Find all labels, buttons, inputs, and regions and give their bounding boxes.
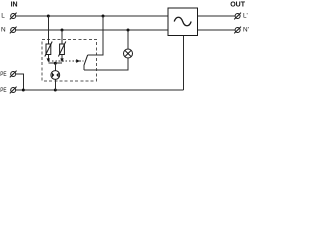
terminal L <box>10 13 17 20</box>
svg-text:L: L <box>1 13 5 20</box>
wire L' (output side) <box>198 15 236 17</box>
terminal L' <box>234 13 241 20</box>
thermal disconnect arrow 2 <box>60 58 63 62</box>
switch blade (signalling contact) <box>84 55 88 65</box>
node arrester-PE junction <box>54 89 57 92</box>
filter sine symbol <box>174 17 191 26</box>
terminal PE upper <box>10 71 17 78</box>
filter box U1 <box>168 8 198 36</box>
wire spark gap bottom lead <box>54 79 56 90</box>
wire lamp return <box>84 58 128 70</box>
varistor RV2 <box>58 42 65 57</box>
terminal PE lower <box>10 87 17 94</box>
wire L (input side) <box>16 15 168 17</box>
mechanical link arrowhead <box>76 59 80 63</box>
wire varistor 2 top lead <box>61 30 63 44</box>
svg-text:PE: PE <box>0 87 6 94</box>
wire lamp top lead <box>127 30 129 49</box>
node L / switch junction <box>102 15 105 18</box>
wire switch feed from L <box>88 16 103 55</box>
wire PE upper jumper <box>16 74 23 90</box>
node common bar junction <box>54 62 57 65</box>
node L / varistor 1 junction <box>47 15 50 18</box>
svg-text:PE: PE <box>0 71 6 78</box>
wire N (input side) <box>16 29 168 31</box>
wire spark gap top lead <box>54 63 56 70</box>
svg-text:OUT: OUT <box>230 1 246 8</box>
terminal N <box>10 27 17 34</box>
spark gap F1 (gas discharge tube) <box>51 71 60 80</box>
wire PE rail <box>16 89 184 91</box>
svg-text:N: N <box>1 27 6 34</box>
wire switch bottom lead <box>83 65 85 70</box>
node PE jumper junction <box>22 89 25 92</box>
svg-text:L': L' <box>243 13 248 20</box>
protective module dashed box <box>42 40 97 82</box>
svg-text:N': N' <box>243 27 249 34</box>
wire N' (output side) <box>198 29 236 31</box>
node N / lamp junction <box>127 29 130 32</box>
svg-text:IN: IN <box>11 1 18 8</box>
wire filter ground drop <box>183 36 185 91</box>
lamp H1 (indicator) <box>124 49 133 58</box>
wire common bar <box>48 62 62 64</box>
wire varistor 1 bottom lead <box>47 55 49 59</box>
wire varistor 2 bottom lead <box>61 55 63 59</box>
wire varistor 1 top lead <box>47 16 49 44</box>
terminal N' <box>234 27 241 34</box>
thermal disconnect arrow 1 <box>47 58 50 62</box>
node N / varistor 2 junction <box>61 29 64 32</box>
mechanical link (dotted) <box>49 60 84 62</box>
varistor RV1 <box>45 42 52 57</box>
